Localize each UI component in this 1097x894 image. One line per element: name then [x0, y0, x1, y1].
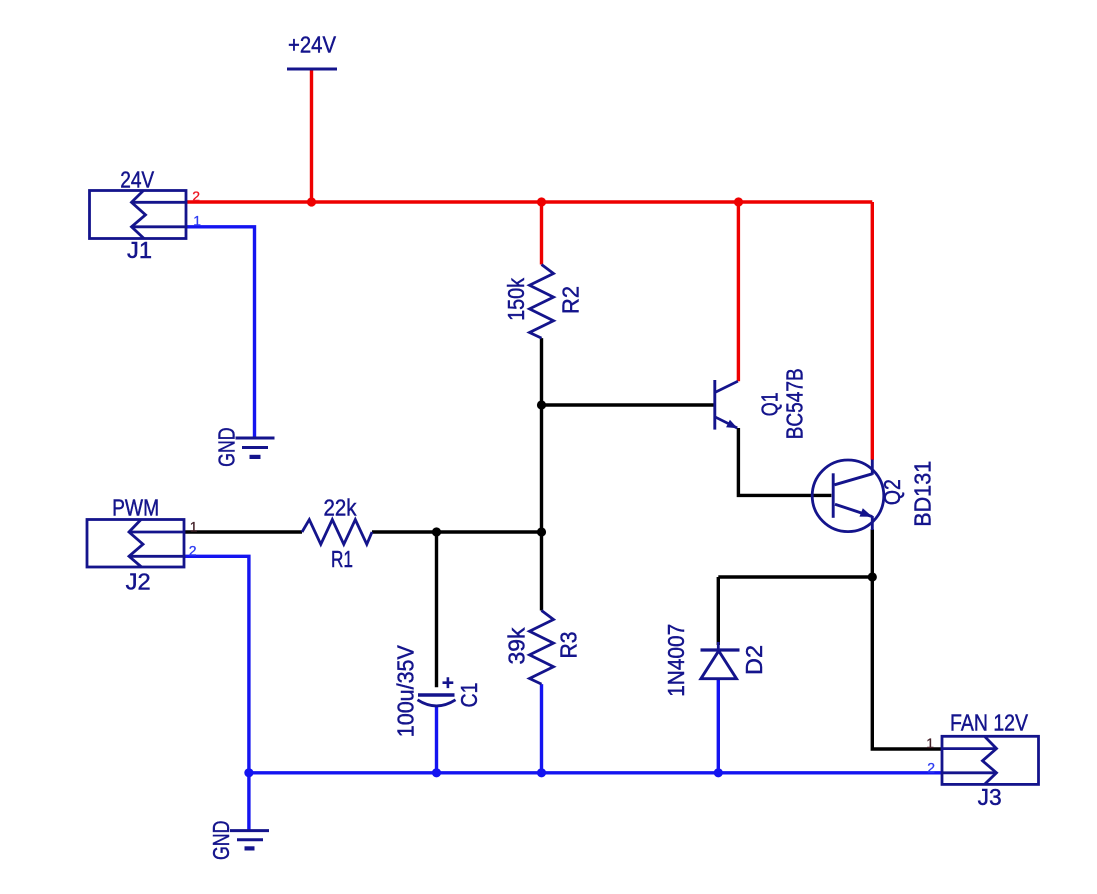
svg-text:R1: R1: [331, 546, 353, 572]
svg-text:150k: 150k: [503, 277, 529, 320]
svg-text:FAN 12V: FAN 12V: [950, 710, 1029, 736]
svg-text:PWM: PWM: [112, 494, 159, 520]
svg-text:22k: 22k: [324, 495, 357, 521]
svg-text:1: 1: [926, 735, 934, 751]
svg-text:2: 2: [927, 759, 935, 775]
svg-text:J1: J1: [127, 237, 152, 263]
svg-text:+24V: +24V: [288, 32, 337, 58]
svg-text:GND: GND: [208, 821, 234, 861]
svg-text:1N4007: 1N4007: [663, 624, 689, 697]
svg-text:Q1: Q1: [756, 392, 782, 416]
svg-text:R3: R3: [555, 632, 581, 659]
svg-text:BD131: BD131: [909, 461, 935, 527]
svg-text:J2: J2: [126, 569, 151, 595]
svg-text:C1: C1: [456, 683, 482, 708]
svg-text:2: 2: [192, 188, 200, 204]
svg-text:100u/35V: 100u/35V: [392, 645, 418, 738]
svg-text:R2: R2: [557, 286, 583, 314]
svg-text:D2: D2: [741, 645, 767, 675]
svg-text:2: 2: [189, 543, 197, 559]
svg-text:1: 1: [193, 213, 201, 229]
svg-text:Q2: Q2: [879, 479, 905, 505]
svg-text:J3: J3: [978, 784, 1002, 810]
svg-text:24V: 24V: [120, 166, 155, 192]
svg-text:GND: GND: [213, 427, 239, 467]
svg-text:BC547B: BC547B: [782, 368, 808, 439]
svg-text:39k: 39k: [504, 627, 530, 664]
svg-text:1: 1: [190, 519, 198, 535]
